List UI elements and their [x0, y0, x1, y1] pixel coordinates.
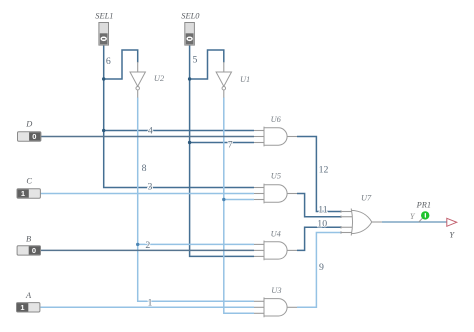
svg-text:U2: U2	[154, 74, 164, 83]
input C	[17, 189, 40, 198]
wire SEL1 branch to U2 input	[104, 50, 138, 79]
svg-text:A: A	[25, 291, 32, 300]
svg-text:Y: Y	[410, 212, 416, 221]
svg-text:10: 10	[317, 218, 327, 229]
svg-text:6: 6	[106, 56, 111, 67]
switch SEL1	[99, 23, 109, 46]
wire U1 output to U5 input3	[224, 199, 254, 201]
wire B to U4 input2	[41, 249, 255, 251]
svg-text:U5: U5	[271, 172, 281, 181]
svg-text:8: 8	[142, 163, 147, 174]
inverter U1	[216, 62, 231, 98]
and-gate U4	[254, 241, 297, 261]
svg-text:Y: Y	[449, 231, 455, 240]
svg-text:1: 1	[148, 297, 153, 308]
junction net 7 on SEL0 trunk	[188, 141, 191, 144]
wire Y from U7 output to connector	[382, 221, 447, 223]
svg-text:B: B	[26, 235, 31, 244]
wire SEL1 trunk net6 to U5 input1 (net 3)	[104, 45, 254, 187]
wire net 11 U5 output to U7 input2	[297, 194, 341, 217]
svg-text:U1: U1	[240, 75, 250, 84]
and-gate U6	[254, 127, 297, 147]
output connector Y	[447, 218, 457, 226]
svg-text:0: 0	[32, 132, 36, 141]
wire net 2 U2 output to U4 input1	[138, 243, 254, 245]
svg-text:SEL0: SEL0	[181, 12, 200, 21]
svg-text:4: 4	[148, 125, 153, 136]
svg-text:12: 12	[319, 164, 329, 175]
junction SEL0 / U1 branch	[188, 77, 191, 80]
wire A to U3 input2	[41, 306, 255, 308]
svg-text:11: 11	[318, 204, 328, 215]
inverter U2	[130, 62, 145, 98]
wire net 4 SEL1 to U6 input1	[104, 130, 254, 132]
and-gate U3	[254, 297, 297, 317]
svg-text:2: 2	[145, 240, 150, 251]
svg-text:1: 1	[20, 303, 24, 312]
svg-text:9: 9	[319, 262, 324, 273]
or-gate U7	[341, 209, 382, 236]
input A	[17, 303, 40, 312]
svg-text:0: 0	[32, 246, 36, 255]
svg-text:5: 5	[193, 54, 198, 65]
wire D to U6 input2	[41, 136, 255, 138]
svg-text:U4: U4	[271, 229, 281, 238]
switch SEL0	[185, 23, 195, 46]
input D	[18, 132, 41, 141]
wire net 10 U4 output to U7 input3	[297, 227, 341, 250]
svg-text:SEL1: SEL1	[95, 12, 113, 21]
svg-text:U6: U6	[271, 115, 282, 124]
wire C to U5 input2	[41, 193, 255, 195]
wire net 8 U2 output to U3 input1	[138, 98, 254, 302]
wire net 7 SEL0 to U6 input3	[190, 142, 254, 144]
svg-text:1: 1	[21, 189, 25, 198]
svg-text:C: C	[26, 177, 32, 186]
svg-text:U7: U7	[361, 193, 372, 202]
wire SEL0 branch to U1 input	[190, 50, 224, 79]
junction U1 output / U5 input3	[222, 198, 225, 201]
svg-text:PR1: PR1	[416, 201, 431, 210]
wire net 12 U6 output to U7 input1	[297, 137, 341, 212]
svg-text:D: D	[25, 120, 32, 129]
wire net 9 U3 output to U7 input4	[297, 233, 341, 308]
probe PR1	[419, 211, 430, 222]
wire U1 output to U3 input3	[224, 98, 254, 314]
svg-text:7: 7	[228, 140, 233, 151]
input B	[17, 246, 40, 255]
junction net 2 on U2 output	[136, 243, 139, 246]
junction SEL1 / U2 branch	[102, 77, 105, 80]
and-gate U5	[254, 184, 297, 204]
svg-text:U3: U3	[271, 286, 281, 295]
wire SEL0 trunk net5 to U4 input3	[190, 45, 254, 256]
junction net 4 on SEL1 trunk	[102, 129, 105, 132]
svg-text:3: 3	[148, 182, 153, 193]
